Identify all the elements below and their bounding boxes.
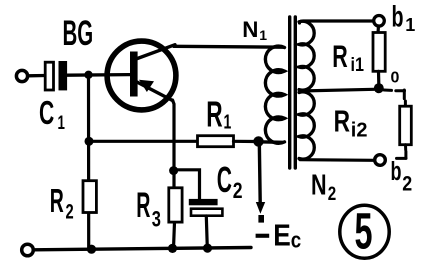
svg-text:i1: i1 [351, 54, 365, 76]
svg-text:N: N [242, 17, 258, 42]
svg-text:1: 1 [405, 15, 415, 35]
wire centre tap to node 0 [300, 89, 375, 91]
resistor Ri1 [373, 33, 385, 72]
resistor R2 [83, 181, 96, 213]
supply arrow [256, 202, 265, 223]
capacitor C2 [189, 199, 223, 248]
label R2 [50, 181, 74, 223]
label -Ec [256, 218, 302, 252]
figure number 5 [340, 203, 389, 259]
svg-text:C: C [217, 160, 232, 200]
transformer secondary lower winding [299, 92, 314, 159]
terminal b2 [375, 155, 386, 166]
svg-text:b: b [392, 1, 404, 34]
svg-text:R: R [136, 186, 150, 225]
wire b1 to Ri1 [376, 26, 380, 33]
svg-text:0: 0 [391, 70, 400, 87]
transformer secondary upper winding [299, 21, 314, 90]
wire secondary bottom to b2 [300, 158, 374, 162]
svg-text:BG: BG [63, 14, 94, 53]
input terminal (bottom left) [22, 244, 34, 256]
svg-text:E: E [273, 218, 291, 252]
wire node C to primary bottom [259, 140, 283, 144]
rail junction dot R3 [168, 244, 177, 253]
wire R1 to node C [234, 140, 259, 143]
svg-text:1: 1 [259, 27, 267, 43]
svg-text:i2: i2 [351, 120, 368, 142]
node 0 junction dot [374, 83, 384, 93]
node A junction dot [84, 71, 92, 79]
wire base-node vertical to bottom rail [87, 75, 90, 250]
label R1 [206, 95, 231, 134]
svg-text:R: R [332, 39, 347, 74]
svg-text:2: 2 [402, 172, 412, 196]
svg-text:1: 1 [58, 113, 65, 134]
label N2 [311, 170, 336, 205]
node C junction dot [253, 136, 263, 146]
label b2 [391, 157, 413, 196]
wire Ri1 to node 0 [377, 71, 380, 84]
label Ri2 [334, 104, 368, 141]
supply wire to -Ec [258, 142, 262, 203]
rail junction dot C2 [203, 244, 212, 253]
svg-text:c: c [291, 229, 301, 253]
resistor R1 [198, 136, 234, 147]
svg-text:2: 2 [66, 200, 74, 223]
node B junction dot (bias line) [85, 137, 94, 146]
label C1 [39, 94, 65, 134]
input terminal (top left) [16, 70, 27, 81]
svg-text:1: 1 [224, 110, 232, 133]
terminal b1 [374, 15, 385, 26]
svg-text:R: R [206, 95, 223, 134]
transformer primary winding N1 [265, 46, 284, 143]
rail junction dot R2 [87, 245, 96, 254]
external load resistor [384, 90, 411, 158]
capacitor C1 [45, 61, 67, 90]
svg-text:N: N [311, 170, 327, 202]
svg-text:3: 3 [152, 207, 161, 232]
wire emitter to C2 [174, 170, 200, 200]
label b1 [392, 1, 416, 35]
wire emitter vertical [173, 100, 175, 189]
wire C1 to base [67, 73, 130, 77]
transformer core [290, 17, 296, 168]
node D junction dot (emitter) [169, 166, 178, 175]
wire secondary top to b1 [300, 21, 374, 23]
svg-text:5: 5 [355, 203, 373, 259]
label Ri1 [332, 39, 364, 75]
resistor R3 [169, 188, 182, 249]
svg-text:R: R [334, 104, 350, 138]
bottom rail [34, 248, 252, 250]
wire bias line to R1 [89, 140, 198, 143]
svg-text:2: 2 [233, 179, 243, 203]
svg-text:R: R [50, 181, 64, 219]
transistor BG [107, 41, 176, 110]
wire collector to transformer primary [174, 45, 283, 49]
svg-text:C: C [39, 94, 54, 131]
wire input to C1 [28, 74, 45, 78]
label N1 [242, 17, 267, 43]
svg-text:b: b [391, 157, 402, 186]
svg-text:2: 2 [328, 182, 336, 204]
label R3 [136, 186, 161, 232]
label C2 [217, 160, 243, 204]
